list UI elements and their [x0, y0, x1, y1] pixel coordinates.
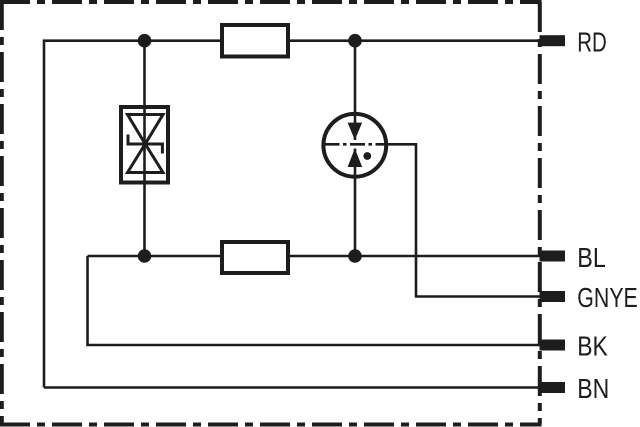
- wire: TVS diode branch vertical: [143, 41, 146, 256]
- enclosure dash-dot border top: [0, 0, 542, 4]
- svg-text:BK: BK: [577, 331, 608, 362]
- enclosure dash-dot border right: [538, 2, 542, 425]
- gas discharge tube F1 circle: [323, 114, 386, 177]
- node: BL rail / GDT branch junction: [348, 249, 362, 263]
- gas discharge tube F1 center electrode dash-dot line: [325, 143, 387, 146]
- resistor R1 (top, decoupling impedance): [222, 25, 288, 57]
- gas discharge tube F1 upper arrow: [348, 123, 363, 140]
- node: BL rail / TVS branch junction: [138, 249, 152, 263]
- gas discharge tube F1 lower arrow: [348, 149, 363, 168]
- svg-text:GNYE: GNYE: [577, 282, 638, 313]
- node: top rail / TVS branch junction: [138, 34, 152, 48]
- resistor R2 (bottom, decoupling impedance): [222, 242, 288, 273]
- wire: top rail from left corner to RD terminal: [44, 41, 540, 388]
- wire: BK branch from BL rail: [88, 256, 541, 345]
- svg-text:BL: BL: [577, 242, 606, 273]
- terminal BK block: [540, 340, 566, 351]
- terminal RD block: [540, 35, 566, 46]
- suppressor diode D1 upper triangle: [128, 115, 164, 145]
- wire: GDT branch vertical upper segment: [354, 41, 357, 140]
- enclosure dash-dot border left: [0, 0, 4, 427]
- suppressor diode D1 zener Z-bar: [128, 135, 162, 154]
- wire: BL rail: [88, 255, 541, 258]
- node: top rail / GDT branch junction: [348, 34, 362, 48]
- svg-text:RD: RD: [577, 27, 607, 58]
- terminal BN block: [540, 382, 566, 393]
- wire: GDT branch vertical lower segment: [354, 149, 357, 257]
- suppressor diode D1 lower triangle: [128, 144, 164, 173]
- terminal BL block: [540, 251, 566, 262]
- wire: BN rail: [44, 386, 540, 389]
- terminal GNYE block: [540, 291, 566, 302]
- suppressor diode D1 box: [121, 107, 168, 183]
- enclosure dash-dot border bottom: [0, 423, 542, 427]
- wire: GDT center electrode to GNYE terminal: [386, 144, 541, 296]
- gas discharge tube F1 gas-filled indicator dot: [363, 152, 371, 160]
- svg-text:BN: BN: [577, 373, 609, 404]
